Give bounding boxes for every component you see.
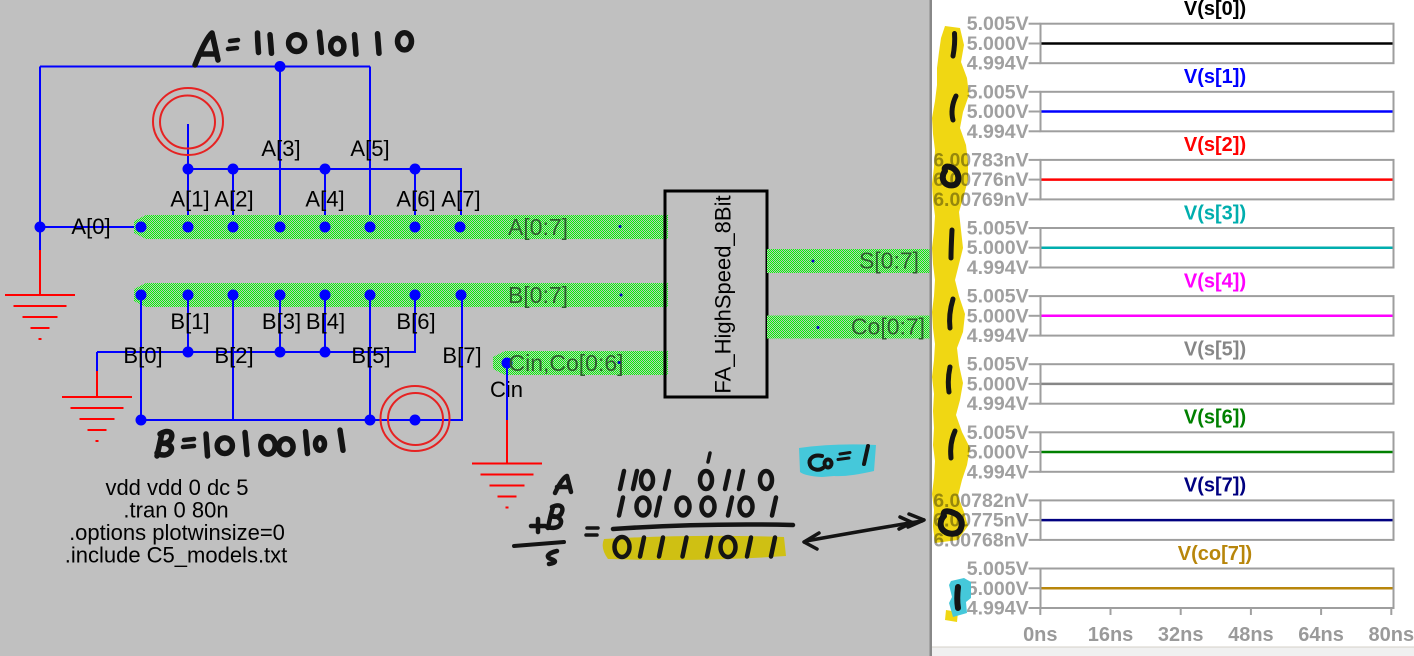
bus Co[0:7]	[767, 316, 932, 339]
node B bus tap x=188	[183, 290, 194, 301]
svg-text:.options plotwinsize=0: .options plotwinsize=0	[69, 520, 285, 545]
handwriting bit 1 s3	[951, 230, 952, 258]
plot pane V(s[2])	[933, 134, 1393, 211]
handwriting addition plus B	[531, 505, 562, 532]
svg-text:4.994V: 4.994V	[967, 598, 1029, 620]
svg-text:S[0:7]: S[0:7]	[859, 248, 919, 274]
plot pane V(s[1])	[967, 66, 1394, 143]
svg-text:5.005V: 5.005V	[967, 558, 1029, 580]
handwriting row 01111011	[615, 537, 776, 557]
handwriting B=10100101	[157, 430, 343, 456]
svg-text:4.994V: 4.994V	[967, 257, 1029, 279]
highlight Co cyan	[799, 444, 876, 477]
svg-text:0ns: 0ns	[1023, 624, 1057, 646]
wire A[0] left vertical	[39, 67, 41, 228]
svg-text:V(co[7]): V(co[7])	[1178, 543, 1252, 565]
svg-text:5.005V: 5.005V	[967, 218, 1029, 240]
highlight yellow column	[932, 26, 970, 543]
svg-text:vdd vdd 0 dc 5: vdd vdd 0 dc 5	[105, 475, 248, 500]
svg-text:A[4]: A[4]	[305, 187, 344, 212]
wire A[0] horizontal	[40, 226, 140, 228]
ground 1	[5, 295, 75, 339]
wire A[3] vertical	[279, 67, 281, 228]
svg-text:B[1]: B[1]	[170, 309, 209, 334]
svg-text:4.994V: 4.994V	[967, 393, 1029, 415]
bus B anchor dot	[620, 294, 623, 297]
svg-text:B[7]: B[7]	[442, 343, 481, 368]
bus A anchor dot	[619, 225, 622, 228]
handwriting bit 1 s4	[950, 299, 953, 328]
handwriting row 10100101	[619, 498, 776, 516]
plot pane V(s[4])	[967, 270, 1394, 347]
waveform panel background	[932, 0, 1414, 647]
node B bus tap x=415	[410, 290, 421, 301]
svg-text:V(s[0]): V(s[0])	[1184, 0, 1246, 20]
svg-text:A[5]: A[5]	[350, 136, 389, 161]
handwriting bit 1 s5	[948, 367, 950, 392]
svg-text:5.005V: 5.005V	[967, 13, 1029, 35]
wire Cin ground drop	[506, 363, 508, 420]
handwriting s	[548, 551, 557, 564]
bus Co anchor dot	[817, 326, 820, 329]
node B[0] corner	[136, 415, 147, 426]
wire B[4] vertical	[324, 295, 326, 352]
svg-text:32ns: 32ns	[1158, 624, 1204, 646]
svg-text:V(s[6]): V(s[6])	[1184, 407, 1246, 429]
handwriting bit 1 s6	[951, 431, 955, 458]
node B bus tap x=233	[228, 290, 239, 301]
node B bus tap x=280	[275, 290, 286, 301]
node B[4] rail junction	[320, 347, 331, 358]
wire vdd stub	[187, 124, 189, 169]
plot pane V(co[7])	[967, 543, 1394, 620]
wire A ground net top rail	[40, 66, 370, 68]
plot pane V(s[6])	[967, 407, 1394, 484]
node flag attach point	[410, 415, 421, 426]
svg-text:5.005V: 5.005V	[967, 81, 1029, 103]
wire B vdd net bottom rail	[141, 295, 462, 420]
svg-text:B[6]: B[6]	[396, 309, 435, 334]
svg-text:V(s[7]): V(s[7])	[1184, 475, 1246, 497]
svg-text:4.994V: 4.994V	[967, 121, 1029, 143]
bus A[0:7]	[134, 215, 668, 239]
svg-text:5.000V: 5.000V	[967, 578, 1029, 600]
handwriting carry tick	[708, 453, 710, 462]
svg-text:A[6]: A[6]	[396, 187, 435, 212]
svg-text:B[3]: B[3]	[262, 309, 301, 334]
bus Cin,Co[0:6]	[493, 351, 668, 375]
svg-text:A[1]: A[1]	[170, 187, 209, 212]
ground 2	[62, 397, 132, 441]
svg-text:48ns: 48ns	[1228, 624, 1274, 646]
svg-text:B[2]: B[2]	[214, 343, 253, 368]
node A bus tap x=460	[455, 222, 466, 233]
svg-text:80ns: 80ns	[1369, 624, 1414, 646]
svg-text:V(s[1]): V(s[1])	[1184, 66, 1246, 88]
bus B[0:7]	[134, 283, 668, 307]
node B bus tap x=325	[320, 290, 331, 301]
wire A[1] vertical	[187, 169, 189, 227]
svg-text:5.000V: 5.000V	[967, 101, 1029, 123]
svg-text:4.994V: 4.994V	[967, 53, 1029, 75]
node A bus tap x=188	[183, 222, 194, 233]
svg-text:Cin,Co[0:6]: Cin,Co[0:6]	[508, 350, 623, 376]
svg-text:FA_HighSpeed_8Bit: FA_HighSpeed_8Bit	[711, 195, 736, 393]
node B[1] rail junction	[183, 347, 194, 358]
svg-text:V(s[5]): V(s[5])	[1184, 339, 1246, 361]
svg-text:A[7]: A[7]	[441, 187, 480, 212]
svg-text:V(s[3]): V(s[3])	[1184, 202, 1246, 224]
wire B[2] vertical	[232, 295, 234, 420]
x axis time scale	[1023, 608, 1414, 646]
svg-text:16ns: 16ns	[1088, 624, 1134, 646]
handwriting row 11010110	[620, 471, 772, 489]
node A bus tap x=415	[410, 222, 421, 233]
handwriting equals	[586, 528, 598, 535]
node A bus tap x=141	[136, 222, 147, 233]
node junction top rail	[275, 61, 286, 72]
wire A[6] vertical	[414, 169, 416, 227]
handwriting bit 1 s1	[952, 96, 956, 120]
plot pane V(s[5])	[967, 339, 1394, 416]
svg-text:.include C5_models.txt: .include C5_models.txt	[65, 543, 288, 568]
node A bus tap x=325	[320, 222, 331, 233]
handwriting addition A	[555, 476, 571, 493]
svg-text:A[0:7]: A[0:7]	[508, 214, 568, 240]
node B bus tap x=461	[456, 290, 467, 301]
node B bus tap x=370	[365, 290, 376, 301]
bus Cin anchor dot	[618, 361, 621, 364]
node B bus tap x=141	[136, 290, 147, 301]
svg-text:5.000V: 5.000V	[967, 373, 1029, 395]
annotation circle vdd stub	[153, 88, 223, 155]
wire B[3] vertical	[279, 295, 281, 352]
wire A[0] ground drop	[39, 227, 41, 250]
node A bus tap x=233	[228, 222, 239, 233]
svg-text:V(s[2]): V(s[2])	[1184, 134, 1246, 156]
handwriting A=11010110	[195, 32, 412, 65]
node A[6] rail junction	[410, 164, 421, 175]
plot pane V(s[7])	[933, 475, 1393, 552]
handwriting Co=1	[810, 446, 868, 470]
node B[5] junction	[365, 415, 376, 426]
highlight yellow speck	[945, 610, 958, 622]
svg-text:5.005V: 5.005V	[967, 354, 1029, 376]
svg-text:B[4]: B[4]	[306, 309, 345, 334]
node B[3] rail junction	[275, 347, 286, 358]
bus S anchor dot	[812, 260, 815, 263]
svg-text:4.994V: 4.994V	[967, 325, 1029, 347]
plot pane V(s[3])	[967, 202, 1394, 279]
svg-text:B[5]: B[5]	[351, 343, 390, 368]
svg-text:5.005V: 5.005V	[967, 286, 1029, 308]
svg-text:A[2]: A[2]	[214, 187, 253, 212]
block U1 FA_HighSpeed_8Bit	[665, 191, 767, 397]
wire A[4] vertical	[324, 169, 326, 227]
handwriting bit 0 s2	[943, 167, 959, 186]
highlight sum yellow	[603, 536, 786, 560]
ground 3	[472, 464, 542, 508]
node A[0] corner	[35, 222, 46, 233]
wire B ground net middle rail	[97, 295, 415, 352]
wire A vdd net middle rail	[188, 169, 461, 227]
svg-text:.tran 0 80n: .tran 0 80n	[123, 498, 228, 523]
annotation circle vdd flag	[381, 386, 450, 451]
svg-text:5.000V: 5.000V	[967, 305, 1029, 327]
wire B ground drop	[96, 352, 98, 371]
bus S[0:7]	[767, 249, 932, 273]
node A bus tap x=280	[275, 222, 286, 233]
handwriting fraction bar	[514, 542, 564, 546]
node Cin tap	[502, 358, 513, 369]
node A[2] rail junction	[228, 164, 239, 175]
svg-text:Co[0:7]: Co[0:7]	[851, 314, 925, 340]
wire A[5] vertical	[369, 67, 371, 228]
svg-text:B[0:7]: B[0:7]	[508, 282, 568, 308]
handwriting bit 1 co7	[954, 587, 961, 608]
panel bottom strip	[932, 647, 1414, 656]
handwriting double arrow	[804, 514, 924, 549]
wire A[2] vertical	[232, 169, 234, 227]
svg-text:5.000V: 5.000V	[967, 33, 1029, 55]
svg-text:A[3]: A[3]	[261, 136, 300, 161]
wire B[1] vertical	[187, 295, 189, 352]
highlight cyan co7	[949, 578, 971, 617]
handwriting bit 0 s7	[941, 511, 962, 533]
svg-text:V(s[4]): V(s[4])	[1184, 270, 1246, 292]
panel border	[930, 0, 933, 656]
svg-text:64ns: 64ns	[1298, 624, 1344, 646]
handwriting sum line	[613, 525, 793, 530]
svg-text:B[0]: B[0]	[123, 343, 162, 368]
svg-text:5.000V: 5.000V	[967, 442, 1029, 464]
node A[1] rail junction	[183, 164, 194, 175]
svg-text:4.994V: 4.994V	[967, 461, 1029, 483]
svg-text:5.000V: 5.000V	[967, 237, 1029, 259]
handwriting bit 1 s0	[953, 34, 955, 57]
plot pane V(s[0])	[967, 0, 1394, 75]
wire B[5] vertical	[369, 295, 371, 420]
node A[4] rail junction	[320, 164, 331, 175]
svg-text:A[0]: A[0]	[71, 214, 110, 239]
svg-text:5.005V: 5.005V	[967, 422, 1029, 444]
node A bus tap x=370	[365, 222, 376, 233]
